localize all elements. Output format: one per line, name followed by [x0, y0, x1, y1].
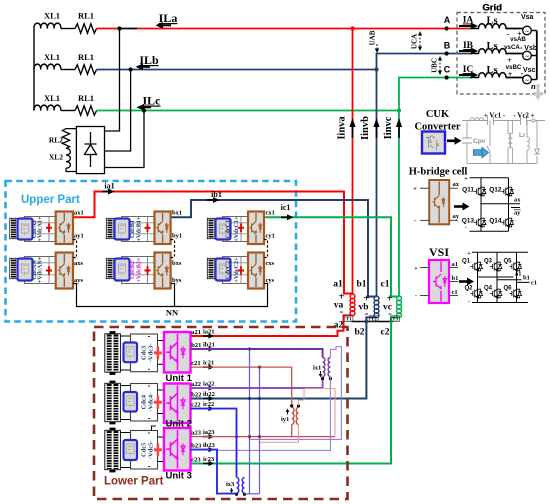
PV array unit 2 — [105, 381, 121, 425]
wire: right terminals ax ay — [449, 188, 458, 220]
wire: inverter phase-b feeder (navy vertical) — [376, 70, 378, 297]
svg-text:+VdcB2+: +VdcB2+ — [136, 257, 143, 282]
wire: top rail — [462, 120, 545, 122]
coil va (red winding) — [350, 294, 355, 316]
svg-text:A: A — [444, 15, 451, 25]
svg-text:T3: T3 — [392, 317, 398, 323]
VSI symbol box — [429, 260, 449, 303]
svg-text:b22: b22 — [191, 391, 201, 398]
transistor Q14 — [502, 218, 514, 227]
svg-text:XL1: XL1 — [44, 11, 60, 21]
converter cell B1 — [106, 210, 182, 245]
voltage source Vsa — [523, 26, 532, 35]
svg-text:bx1: bx1 — [172, 210, 182, 217]
wire: iy1 left winding to a23 — [291, 424, 293, 436]
svg-text:- Vc2 +: - Vc2 + — [513, 112, 534, 120]
ground/neutral gray arrow — [533, 84, 543, 101]
node: iy1 polarity dots — [290, 404, 293, 407]
inverter unit 3 (magenta box) — [164, 428, 191, 471]
svg-text:Lr: Lr — [519, 132, 526, 139]
diode (inside rectifier) — [85, 132, 97, 167]
transformer iy1 left winding — [292, 407, 294, 424]
transformer iy1 right winding — [296, 407, 298, 424]
transistor Q2 — [471, 289, 483, 298]
svg-text:b1: b1 — [523, 275, 530, 282]
resistor RL1 (phase b) — [75, 65, 97, 74]
capacitor C2 (CUK detail) — [521, 116, 527, 125]
wire a23 (indian red row) — [191, 436, 336, 438]
svg-text:cxs: cxs — [266, 260, 275, 267]
svg-text:Q4: Q4 — [484, 286, 493, 292]
inductor (input, CUK detail) — [470, 118, 484, 121]
capacitor (red) unit 2 — [157, 396, 159, 409]
converter cell C2 — [207, 253, 274, 289]
upper part dashed box — [6, 181, 297, 322]
PV array unit 1 — [105, 331, 121, 375]
inductor Ls (phase B) — [470, 49, 523, 54]
diode rectifier block — [76, 127, 104, 174]
wire: VSI symbol left terminals — [420, 268, 429, 296]
wire: secondary bus under T1-T3 — [352, 321, 392, 323]
svg-text:Q11: Q11 — [462, 187, 474, 194]
svg-text:c21: c21 — [191, 360, 200, 367]
svg-text:RL1: RL1 — [78, 93, 94, 103]
label T1 — [344, 316, 353, 322]
wire: top rail — [470, 178, 509, 232]
wire c2 (green drop to Unit3 c23) — [191, 317, 400, 463]
svg-text:a22: a22 — [191, 381, 201, 388]
capacitor box Cdc unit 2 — [131, 384, 158, 422]
svg-text:Q1: Q1 — [462, 259, 471, 265]
transistor Q5 — [510, 262, 522, 271]
PV array unit 3 — [105, 428, 121, 473]
svg-text:ix1: ix1 — [313, 365, 321, 372]
transistor Q11 — [474, 187, 486, 196]
transformer ix1 right winding — [328, 358, 330, 377]
wire: outputs ax ay — [509, 204, 521, 208]
voltage source Vsc — [523, 75, 532, 84]
node: junction dots lower mesh — [248, 347, 251, 350]
svg-text:c22: c22 — [191, 401, 200, 408]
wire: pale red link iy1 right winding bottom — [260, 424, 299, 442]
wire ic1 (green from cell C1 to phase-c feeder) — [264, 217, 399, 296]
wire: capacitor box to inverter unit 2 — [158, 390, 165, 414]
wire: inverter phase-a feeder (red vertical) — [352, 29, 354, 295]
converter cell C1 — [207, 210, 275, 245]
svg-text:ay: ay — [453, 213, 460, 220]
svg-text:b2: b2 — [354, 328, 364, 338]
resistor RL1 (phase c) — [75, 106, 97, 115]
wire: bottom rail — [470, 230, 509, 232]
converter cell B2 — [106, 253, 182, 289]
svg-text:Q13: Q13 — [462, 218, 475, 225]
transformer ix1 left winding — [323, 358, 325, 377]
node: junction dots on phase lines — [117, 26, 121, 30]
svg-text:Ls: Ls — [486, 41, 497, 52]
svg-text:vsBC: vsBC — [506, 64, 522, 71]
svg-text:+: + — [464, 177, 468, 183]
node: junction on ILb — [374, 67, 378, 71]
svg-text:vsCA: vsCA — [504, 44, 520, 51]
svg-text:-Vdc3-: -Vdc3- — [148, 344, 155, 363]
wire ILc (green phase-c line, steps up to grid level at x=399) — [97, 78, 470, 111]
wire — [61, 110, 75, 112]
transistor Q12 — [502, 187, 514, 196]
wire: violet link ix1 bottom to b23 corner — [217, 377, 330, 451]
svg-text:Cdc3: Cdc3 — [141, 345, 148, 360]
node: ix1 polarity dots — [321, 377, 324, 380]
svg-text:- Vsb: - Vsb — [520, 45, 537, 52]
grid dashed box — [457, 13, 545, 95]
svg-text:+: + — [467, 251, 471, 257]
wire ib1 (navy from cell B1 to phase-b feeder) — [171, 200, 377, 297]
CUK detail circuit (gray) — [462, 116, 545, 164]
wire — [61, 28, 75, 30]
svg-text:cy1: cy1 — [266, 232, 275, 239]
wire: dashed link ay1-axs — [73, 240, 77, 258]
wire: grid right rail to neutral n — [536, 31, 538, 80]
svg-text:RL1: RL1 — [78, 11, 94, 21]
wire: dashed link by1-bxs — [171, 240, 175, 258]
svg-text:B: B — [444, 41, 451, 51]
wire ILa (red phase-a line to grid) — [97, 28, 120, 30]
svg-text:Q12: Q12 — [489, 187, 502, 194]
wire ILb (navy phase-b line, steps up to grid level at x=376.5) — [97, 54, 470, 70]
svg-text:Q6: Q6 — [503, 286, 512, 292]
svg-text:XL1: XL1 — [44, 93, 60, 103]
wire b2 (navy drop to Unit2 b22) — [191, 317, 377, 398]
transistor Q6 — [510, 289, 522, 298]
svg-text:Ls: Ls — [486, 16, 497, 27]
transistor Q13 — [474, 218, 486, 227]
capacitor C1 (CUK detail) — [488, 116, 494, 125]
svg-text:UCA: UCA — [411, 34, 419, 49]
svg-text:a2: a2 — [334, 321, 344, 331]
capacitor (red) unit 3 — [157, 443, 159, 456]
svg-text:Cpv: Cpv — [473, 138, 486, 145]
wire b23 (bright blue to ix3) — [191, 450, 237, 494]
svg-text:Cdc5: Cdc5 — [141, 442, 148, 457]
capacitor box Cdc unit 3 — [131, 431, 158, 470]
svg-text:-Vdc5-: -Vdc5- — [148, 440, 155, 459]
wire: top rail — [472, 252, 528, 302]
voltage source Vsb — [523, 51, 532, 60]
wire: mid rail — [481, 203, 509, 205]
short black wires from sources to rail (A,B,C) — [506, 29, 523, 78]
svg-text:-: - — [414, 219, 416, 225]
wire: capacitor box to inverter unit 3 — [158, 437, 165, 462]
node: ix3 polarity dots — [235, 493, 238, 496]
wire: PV to capacitor box unit 1 — [120, 336, 130, 370]
svg-text:ax: ax — [514, 197, 521, 204]
svg-text:RL2: RL2 — [49, 136, 63, 145]
wire: stub above unit3 box — [152, 426, 156, 431]
svg-text:cys: cys — [266, 277, 275, 284]
svg-text:UBC: UBC — [431, 58, 439, 73]
H-bridge detail circuit — [470, 178, 521, 232]
inverter unit 1 (magenta box) — [164, 332, 191, 373]
inductor Ls (phase A) — [470, 24, 523, 29]
svg-text:c2: c2 — [381, 328, 390, 338]
svg-text:ax: ax — [453, 181, 460, 188]
svg-text:-: - — [465, 225, 467, 231]
lower part dashed box — [94, 327, 348, 499]
svg-text:Iinva: Iinva — [337, 116, 348, 140]
wire: left terminals of H-bridge symbol — [420, 188, 429, 220]
svg-text:a21: a21 — [191, 329, 201, 336]
wire: ix3 right winding link — [245, 493, 260, 495]
converter cell A1 — [10, 210, 84, 245]
svg-text:iy1: iy1 — [281, 416, 289, 423]
svg-text:cx1: cx1 — [266, 210, 275, 217]
svg-text:Vsa: Vsa — [521, 14, 534, 21]
wire a22 (purple from ix1 to Unit2) — [191, 377, 323, 389]
svg-text:T2: T2 — [371, 317, 377, 323]
wire: thin blue vertical from b21 — [249, 349, 251, 494]
wire: pale red link a23 to iy1 right winding top — [299, 389, 336, 437]
capacitor box Cdc unit 1 — [131, 334, 158, 372]
svg-text:b21: b21 — [191, 342, 201, 349]
svg-text:CdcC2: CdcC2 — [225, 261, 232, 279]
svg-text:Q3: Q3 — [484, 259, 493, 265]
svg-text:C: C — [444, 65, 451, 75]
inductor XL1 (phase b) — [34, 64, 61, 69]
wire: bottom rail — [467, 163, 537, 165]
inductor XL1 (phase a) — [34, 23, 61, 28]
svg-text:c1: c1 — [452, 289, 458, 296]
svg-text:ay: ay — [514, 210, 521, 217]
svg-text:XL1: XL1 — [44, 52, 60, 62]
transistor Q1 — [471, 262, 483, 271]
svg-text:CUK: CUK — [426, 109, 450, 120]
converter cell AN — [10, 253, 84, 289]
svg-text:ILc: ILc — [143, 94, 162, 108]
svg-text:a1: a1 — [333, 280, 343, 290]
inductor Lr — [527, 121, 529, 164]
PV cyan arrow (CUK detail) — [474, 150, 483, 155]
H-bridge cell symbol box — [429, 180, 449, 224]
svg-text:ax1: ax1 — [74, 210, 84, 217]
inductor XL2 (vertical, left loop) — [66, 148, 76, 171]
resistor RL1 (phase a) — [75, 24, 97, 33]
wire b21 (dark purple to transformer ix1) — [191, 349, 323, 358]
svg-text:n: n — [531, 81, 536, 91]
inductor XL1 (phase c) — [34, 105, 61, 110]
capacitor (red) unit 1 — [157, 346, 159, 359]
wire ia1 (red from cell A1 to phase-a feeder) — [73, 192, 353, 294]
svg-text:bxs: bxs — [172, 260, 182, 267]
svg-text:Upper Part: Upper Part — [21, 194, 80, 206]
VSI detail circuit — [472, 252, 530, 302]
svg-text:Ls: Ls — [486, 65, 497, 76]
wire: VSI symbol right terminals a1 b1 c1 — [449, 268, 458, 296]
wire: drops from three phases to rectifier — [105, 29, 120, 132]
svg-text:+: + — [414, 266, 418, 272]
svg-text:bys: bys — [172, 277, 182, 284]
node (output) — [532, 119, 535, 122]
svg-text:Vsc: Vsc — [523, 67, 536, 74]
svg-text:by1: by1 — [172, 232, 182, 239]
svg-text:Lower Part: Lower Part — [104, 476, 164, 488]
svg-text:+VdcAN+: +VdcAN+ — [36, 256, 43, 283]
label T2 — [370, 316, 379, 322]
svg-text:-: - — [415, 294, 417, 300]
svg-text:Q2: Q2 — [464, 286, 473, 292]
svg-text:ia1: ia1 — [104, 182, 114, 191]
svg-text:b1: b1 — [356, 280, 366, 290]
resistor RL2 (vertical, left loop) — [62, 129, 76, 149]
svg-text:ays: ays — [74, 277, 84, 284]
svg-text:RL1: RL1 — [78, 52, 94, 62]
svg-text:a1: a1 — [515, 271, 522, 278]
svg-text:Q5: Q5 — [503, 259, 512, 265]
transformer (CUK detail) — [508, 121, 511, 164]
svg-text:Grid: Grid — [483, 3, 503, 14]
wire: dashed link cy1-cxs — [264, 240, 268, 258]
svg-text:b23: b23 — [191, 442, 202, 449]
label T3 — [391, 316, 400, 322]
svg-text:NN: NN — [166, 308, 179, 318]
svg-text:ix3: ix3 — [226, 481, 235, 488]
svg-text:c1: c1 — [381, 280, 390, 290]
CUK converter symbol box — [422, 132, 445, 154]
coil vb (navy winding) — [374, 296, 379, 318]
coil vc (green winding) — [397, 296, 402, 318]
wire: thin blue vertical from c21 — [259, 367, 261, 494]
wire: PV to capacitor box unit 3 — [120, 433, 130, 468]
svg-text:c23: c23 — [191, 456, 201, 463]
wire: PV to capacitor box unit 2 — [120, 386, 130, 420]
wire: NN neutral bus — [73, 284, 268, 307]
wire c21 (indian red to transformer iy1) — [191, 367, 292, 406]
svg-text:+VdcC2+: +VdcC2+ — [233, 257, 240, 283]
svg-text:+ Vc1 -: + Vc1 - — [484, 112, 506, 120]
inductor Ls (phase C) — [470, 73, 523, 78]
svg-text:-: - — [468, 300, 470, 306]
capacitor Cpv — [462, 121, 472, 164]
svg-text:+VdcB1+: +VdcB1+ — [136, 216, 143, 241]
wire — [61, 69, 75, 71]
svg-text:CdcC1: CdcC1 — [225, 220, 232, 238]
transistor Q3 — [490, 262, 502, 271]
wire: left vertical bus joining three phase branches — [33, 29, 35, 111]
svg-text:Iinvc: Iinvc — [383, 116, 394, 139]
transformer ix3 left winding — [237, 478, 239, 494]
transistor Q4 — [490, 289, 502, 298]
wire c22 (bright blue to transformer ix3) — [191, 409, 237, 478]
svg-text:ay1: ay1 — [74, 232, 84, 239]
svg-text:UAB: UAB — [369, 30, 377, 45]
svg-text:XL2: XL2 — [49, 153, 63, 162]
arrow (VSI symbol to detail) — [459, 280, 468, 283]
wire a2 (red drop to Unit1 a21) — [191, 315, 353, 336]
svg-text:Cdc4: Cdc4 — [141, 394, 148, 409]
wire: inverter phase-c feeder (green vertical) — [398, 111, 400, 297]
inverter unit 2 (magenta box) — [164, 384, 191, 424]
svg-text:b1: b1 — [452, 275, 459, 282]
wire: violet link ix1 top to row b23 area — [250, 347, 342, 440]
svg-text:c1: c1 — [531, 280, 537, 287]
node: junction on ILc — [397, 108, 401, 112]
svg-text:a1: a1 — [452, 261, 459, 268]
arrow (H-bridge symbol to detail) — [454, 205, 463, 208]
switch leg — [487, 121, 490, 164]
svg-text:Q14: Q14 — [489, 218, 502, 225]
svg-text:a23: a23 — [191, 429, 202, 436]
svg-text:VSI: VSI — [429, 245, 449, 259]
svg-text:+: + — [413, 187, 417, 193]
svg-text:axs: axs — [74, 260, 84, 267]
svg-text:Unit 3: Unit 3 — [166, 471, 192, 482]
node: junction on ILa — [350, 26, 354, 30]
svg-text:+VdcA1+: +VdcA1+ — [36, 216, 43, 242]
node: bus junctions — [365, 320, 369, 324]
svg-text:vsAB: vsAB — [510, 36, 526, 43]
wire: capacitor box to inverter unit 1 — [158, 341, 165, 365]
svg-text:T1: T1 — [346, 317, 352, 323]
wire: output taps a1 b1 c1 — [478, 277, 530, 282]
wire: bottom rail — [472, 302, 528, 304]
svg-text:-Vdc4-: -Vdc4- — [148, 393, 155, 412]
svg-text:Iinvb: Iinvb — [360, 116, 371, 140]
transformer ix3 right winding — [242, 478, 244, 494]
arrow (CUK symbol to detail) — [447, 140, 455, 143]
svg-text:ib1: ib1 — [211, 190, 222, 199]
diode (CUK detail right) — [535, 121, 540, 164]
svg-text:ic1: ic1 — [281, 203, 291, 212]
svg-text:+VdcC1+: +VdcC1+ — [233, 216, 240, 242]
svg-text:H-bridge cell: H-bridge cell — [409, 167, 468, 178]
